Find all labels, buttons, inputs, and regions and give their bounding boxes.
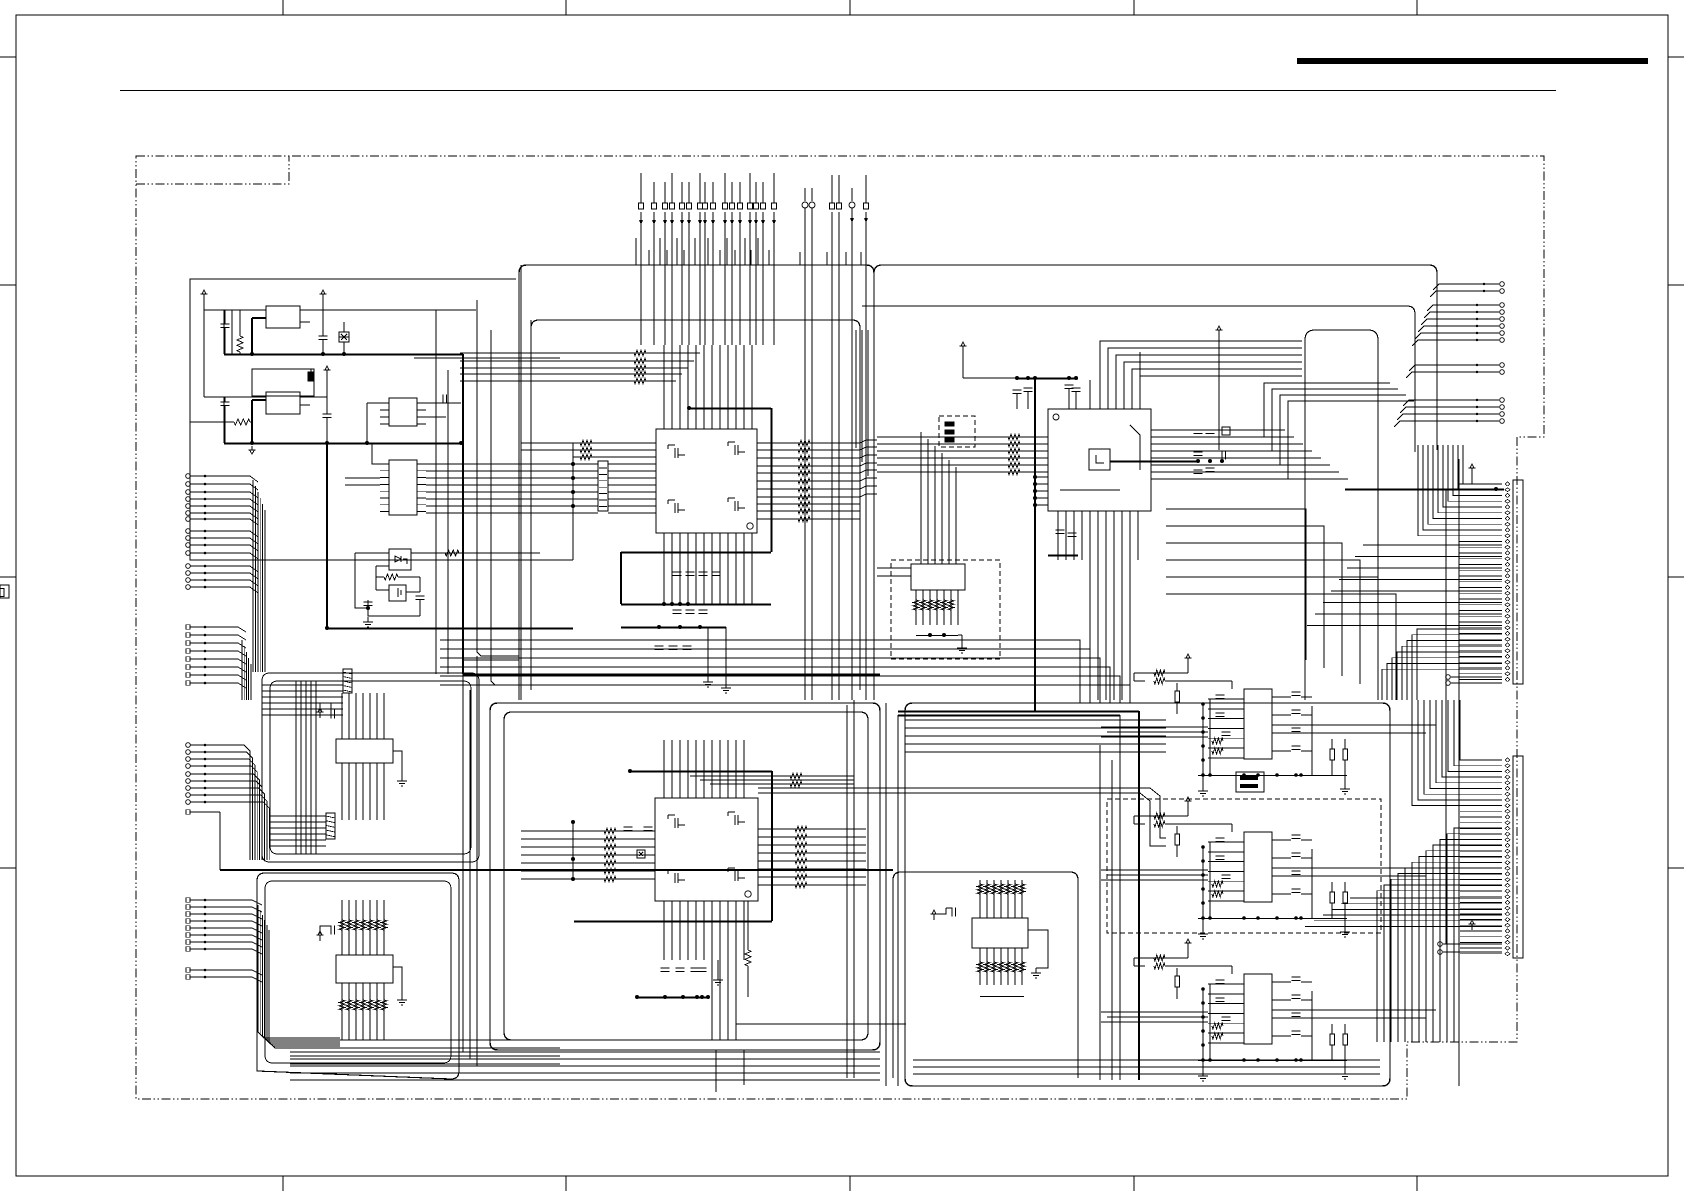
U9 ground right — [1344, 1069, 1346, 1074]
bus outline RRF — [262, 673, 479, 862]
U6 top pin columns — [979, 880, 981, 918]
CONN2 long feeds — [1350, 897, 1502, 899]
connector CONN2 body — [1513, 756, 1523, 958]
CONN1 row stubs — [1465, 483, 1502, 485]
U8 box resistor left — [1175, 834, 1180, 845]
VCC arrow at REG1 output — [322, 294, 324, 300]
RN1 to U1 rows — [608, 463, 656, 465]
opto U13 — [389, 549, 411, 570]
frame zone ticks bottom — [282, 1176, 284, 1191]
ground GND7 — [1035, 968, 1037, 973]
resistor network RN1 — [598, 461, 608, 511]
top rail extension to right — [323, 309, 476, 311]
diode D1 small — [308, 372, 314, 381]
U8 long input rows — [1101, 869, 1208, 871]
U2 small component — [637, 850, 645, 858]
long crossing at y1024 — [736, 1023, 906, 1025]
vertical bus x521-x531 — [520, 265, 522, 700]
top header connector pads J1 — [640, 173, 642, 203]
rows crossing to RRE/U8 — [758, 788, 1166, 838]
U8 vcc arrow — [1187, 801, 1189, 807]
bus outline RRC inner — [862, 306, 1415, 452]
U9 ground — [1202, 1071, 1204, 1076]
U1 inner transistor glyphs — [674, 448, 676, 458]
U11 cap C11 — [330, 926, 332, 935]
IC U7 — [1244, 689, 1272, 759]
U7 long input rows — [1101, 726, 1208, 728]
U3 bottom columns — [1057, 511, 1059, 560]
U8 left bus verticals — [1202, 847, 1204, 919]
U12B pin stubs — [380, 463, 389, 465]
U8 input rows — [1208, 841, 1244, 843]
IC U8 — [1244, 832, 1272, 902]
U2 left rows — [521, 830, 655, 832]
small pin circles near CONN1 bottom — [1446, 675, 1451, 680]
U3 left dots — [1033, 475, 1037, 479]
capacitor C1 — [221, 323, 230, 325]
U8 right vertical — [1311, 849, 1313, 918]
U9 bottom rail — [1198, 1060, 1347, 1062]
U3 bottom caps — [1056, 529, 1065, 531]
U7 left zigzags — [1212, 738, 1223, 744]
U3 bottom heavy — [1048, 555, 1078, 557]
U9 box resistors right — [1330, 1034, 1335, 1045]
bus outline RRH around U6 — [893, 872, 1078, 1078]
U7 ground — [1202, 786, 1204, 791]
U8 top rows with resistors — [1134, 815, 1188, 817]
REG1 wires — [204, 309, 266, 311]
U6 bottom rail — [980, 996, 1024, 998]
U3 left rows — [877, 436, 1048, 438]
U2 verticals to RRD bottom — [711, 901, 713, 1040]
resistor R2 — [234, 419, 250, 425]
long horizontals left-center — [414, 357, 560, 359]
capacitor C5 — [442, 395, 444, 404]
U5 bottom rail — [916, 635, 958, 637]
U1 right rows — [757, 442, 860, 444]
mid horizontals crossing — [256, 559, 573, 561]
left connector pins CN3 squares — [186, 625, 190, 629]
U7 ground right — [1344, 784, 1346, 789]
RRG bottom bundle — [290, 1039, 560, 1041]
REG2 wires — [204, 396, 266, 398]
capacitor C7 — [416, 595, 425, 597]
U3 top caps — [1013, 389, 1022, 391]
IC U6 — [972, 918, 1028, 948]
U2 bottom pin columns — [663, 901, 665, 960]
CONN2 feed corner bundle lower — [1454, 828, 1502, 1042]
U2 bottom resistor — [745, 950, 751, 966]
jumper block JP2 (hatched) — [343, 669, 352, 693]
U11 bottom pin columns — [341, 983, 343, 1040]
U6 right wire — [1028, 930, 1048, 968]
header group2 wires down — [804, 265, 806, 700]
power block inner verticals — [223, 310, 225, 354]
RRE bottom inner rows — [913, 1059, 1380, 1061]
U7 vcc arrow — [1187, 658, 1189, 664]
dashed box around U8 — [1107, 799, 1381, 933]
RRA right edge extension verticals — [853, 700, 855, 1078]
board outline label box — [136, 156, 289, 184]
U11 resistor row below — [339, 1000, 345, 1010]
right pins feed bundle — [1433, 284, 1439, 290]
CONN1 vcc — [1471, 468, 1473, 474]
U9 right exit wires — [1272, 1009, 1436, 1011]
CONN1 lower feeds — [1417, 629, 1502, 700]
U7 right wires — [1272, 696, 1291, 698]
U2 caps cluster left-bottom — [644, 826, 653, 828]
U11 right down wire — [393, 967, 402, 995]
U8 left zigzags — [1212, 881, 1223, 887]
right edge pin circles group RP2 — [1500, 303, 1505, 308]
RRE inner verticals — [1099, 745, 1101, 1080]
header wires through bus to U1 — [640, 265, 642, 345]
U8 left caps — [1216, 837, 1225, 839]
U1 heavy corner bus — [689, 408, 771, 410]
RRA-edge verticals to rows — [855, 330, 857, 448]
U6 left cap — [951, 908, 953, 917]
bus outline RRC right upper — [874, 265, 1437, 450]
VCC U11 — [319, 935, 321, 941]
ground GND9 — [401, 995, 403, 1000]
capacitor C3 — [221, 401, 230, 403]
waist horizontal bundle — [440, 640, 1080, 703]
ground GND2 — [367, 617, 369, 622]
U7 left bus verticals — [1202, 704, 1204, 776]
IC U9 — [1244, 974, 1272, 1044]
small pin circles near CONN2 — [1438, 942, 1443, 947]
U3 inner route lines — [1130, 425, 1140, 470]
U12A wires — [367, 402, 380, 404]
horizontal bundle into RRE — [905, 719, 1166, 721]
U12B left wires — [372, 443, 380, 464]
ground GND3 — [707, 677, 709, 682]
U1 bottom stub caps — [655, 645, 664, 647]
dashed jumper box JP1 — [939, 416, 975, 447]
CN5 bundle vertical — [258, 905, 340, 1038]
U7 right vertical — [1311, 706, 1313, 775]
U11 resistor row above — [339, 920, 345, 930]
U3 right heavy stub — [1110, 461, 1198, 463]
QFP U3 body — [1048, 409, 1151, 511]
U10 cap C10 — [330, 710, 332, 719]
U2 rows above — [690, 775, 854, 777]
U2 inner transistor glyphs — [674, 818, 676, 828]
U9 left bus verticals — [1202, 989, 1204, 1061]
IC U5 — [911, 564, 965, 590]
RRF inner vertical bundle — [295, 681, 297, 854]
U2 bottom caps — [661, 967, 670, 969]
VCC arrow at REG1 input — [203, 294, 205, 300]
U8 box resistors right — [1330, 892, 1335, 903]
left connector pins CN4 circles — [186, 743, 191, 748]
left verticals down to bottom bundle — [462, 674, 464, 1052]
CONN2 vcc — [1471, 924, 1473, 930]
bus outline RRA inner — [531, 320, 860, 690]
U1 rows jog to U3 rows — [860, 440, 877, 443]
bus outline RRE lower right — [905, 703, 1390, 1086]
left connector pins CN5 squares — [186, 898, 190, 902]
bus outline RRD lower center — [490, 703, 880, 1050]
connector CONN1 body — [1513, 480, 1523, 684]
U2 top pin columns — [663, 740, 665, 798]
U3 right rows — [1151, 429, 1285, 431]
ground GND1 — [251, 446, 253, 450]
U3 top heavy rail — [1017, 378, 1078, 380]
U9 right vertical — [1311, 991, 1313, 1060]
power block outline — [190, 279, 516, 422]
U3 right caps 2 — [1194, 469, 1203, 471]
resistor R3 — [445, 550, 459, 556]
long horizontal from power to RRA — [463, 674, 880, 676]
U1 bottom rail — [621, 604, 771, 606]
U2 right rows upper with resistors — [790, 773, 802, 779]
verticals below U3 into RRE — [1089, 560, 1091, 700]
IC U10 — [336, 739, 393, 763]
U7 right exit wires — [1272, 724, 1436, 726]
U6 bottom pin columns — [979, 948, 981, 985]
top rule line — [120, 90, 1556, 92]
header pad stubs — [635, 238, 637, 265]
U8 ground — [1202, 929, 1204, 934]
VCC feed at stack top — [1218, 330, 1220, 336]
bus outline RRG inner — [265, 881, 451, 1063]
U9 long input rows — [1101, 1011, 1208, 1013]
CONN2 pins — [1505, 758, 1510, 762]
U3 heavy left bus — [1034, 378, 1036, 711]
U5 top feed verticals — [920, 432, 922, 564]
heavy vertical x621 — [620, 552, 622, 604]
U12B right bus rows to resistor network — [426, 463, 598, 465]
U8 right caps column — [1292, 834, 1301, 836]
U9 right caps column — [1292, 976, 1301, 978]
frame zone ticks left — [0, 56, 16, 58]
bus outline RRF inner — [270, 681, 471, 854]
U8 right wires — [1272, 839, 1291, 841]
heavy horizontal to right — [327, 628, 573, 630]
U2 bottom rail — [637, 997, 708, 999]
dashed box around U5 — [891, 560, 1000, 659]
U9 right wires — [1272, 981, 1291, 983]
U9 left zigzags — [1212, 1023, 1223, 1029]
U9 input rows — [1208, 983, 1244, 985]
resistor R4 — [384, 574, 398, 580]
U10 right down wire — [393, 751, 402, 776]
rounded-top bus pair — [1305, 330, 1378, 700]
U7 input rows — [1208, 698, 1244, 700]
CONN1 feed corner bundle — [1463, 445, 1502, 484]
left single square pin — [186, 810, 190, 814]
CONN2 feed corner bundle upper — [1460, 700, 1502, 760]
U5 pin columns below — [915, 590, 917, 625]
regulator REG1 — [266, 306, 300, 328]
title bar (thick) — [1297, 58, 1648, 64]
ground GND6 — [961, 643, 963, 648]
power rail heavy top — [224, 354, 463, 356]
U2 left bus vertical — [572, 822, 574, 879]
U6 resistor row below — [977, 962, 983, 972]
U7 right caps column — [1292, 691, 1301, 693]
regulator REG2 — [266, 392, 300, 414]
QFP U2 body — [655, 798, 758, 901]
U9 vcc arrow — [1187, 943, 1189, 949]
verticals below RRD to border — [715, 1050, 717, 1092]
right spine long vertical — [1445, 489, 1447, 944]
IC U12B 16-pin — [389, 460, 417, 515]
left long verticals from power block — [435, 310, 437, 674]
U11 top pin columns — [341, 900, 343, 955]
resistor R1 vertical — [237, 336, 243, 352]
U6 resistor row above — [977, 884, 983, 894]
U7 box resistor left — [1175, 691, 1180, 702]
left pins bundle vertical CN2 — [252, 480, 254, 672]
U10 top pin columns — [341, 693, 343, 739]
header square pads group2 — [831, 175, 833, 203]
U2 right rows — [758, 828, 866, 830]
U5 resistor row — [913, 600, 919, 610]
left margin zone mark — [0, 585, 9, 598]
frame zone ticks right — [1668, 56, 1684, 58]
U1 bottom caps cluster 2 — [673, 609, 682, 611]
U8 bottom rail — [1198, 918, 1347, 920]
U7 left caps — [1216, 694, 1225, 696]
CONN1 pins — [1505, 482, 1510, 486]
corridor right bus verticals — [1458, 459, 1460, 1086]
VCC U10 — [319, 712, 321, 718]
U7 box resistors right — [1330, 749, 1335, 760]
CN3 bundle vertical — [241, 640, 243, 700]
U8 right exit wires — [1272, 867, 1436, 869]
U13 wires — [355, 552, 389, 554]
U1 decoupling caps below — [673, 571, 682, 573]
JP1 jumper bars — [945, 422, 954, 426]
right edge pin circles group RP3 — [1500, 363, 1505, 368]
U7 extra caps below — [1236, 772, 1264, 792]
left bus vertical x573 — [572, 443, 574, 560]
capacitor C6 — [364, 601, 373, 603]
ground GND8 — [401, 776, 403, 781]
header stub wires 2 — [799, 252, 801, 265]
U3 inner pad square — [1089, 449, 1110, 470]
heavy bus vertical from power rail — [462, 354, 464, 674]
U1 left feed lines from x521 — [521, 442, 573, 444]
power rail heavy bottom — [224, 443, 463, 445]
jumper block JP3 (hatched) — [326, 813, 335, 839]
heavy vertical mid-left — [326, 443, 328, 628]
U3 right U-turn bundle — [1151, 383, 1390, 437]
capacitor C2 — [319, 335, 328, 337]
U3 top pin columns short — [1089, 380, 1091, 409]
CONN2 row stubs — [1466, 759, 1502, 761]
CONN1 long feeds from left — [1363, 544, 1502, 546]
header circle pads — [804, 188, 806, 201]
VCC U6 — [933, 914, 935, 920]
ground GND4 — [725, 683, 727, 688]
right edge pin circles group RP1 — [1500, 282, 1505, 287]
U12A pin stubs — [380, 402, 389, 404]
U5 wires left — [877, 567, 911, 569]
thermistor RT1 — [339, 332, 349, 342]
U1 top pin columns — [663, 345, 665, 429]
staircase bundle to stack bus (U3 top pins) — [1100, 341, 1302, 409]
U10 bottom pin columns — [341, 763, 343, 820]
corridor heavy right horizontal — [1345, 489, 1504, 491]
bus outline RRD inner — [504, 712, 868, 1040]
heavy waist pair — [898, 711, 1139, 713]
verticals between RRD and RRE — [885, 703, 887, 1086]
U8 ground right — [1344, 927, 1346, 932]
bottom bundle across — [290, 1051, 880, 1053]
waist bundle corners left — [477, 300, 519, 656]
U1 left rows upper — [573, 442, 656, 444]
frame zone ticks top — [282, 0, 284, 15]
QFP U1 body — [656, 429, 757, 533]
IC U12A — [389, 398, 417, 426]
U13/U14 loop wires — [355, 560, 368, 608]
regulator REG2 outline box — [252, 369, 314, 396]
right edge pin circles group RP4 — [1500, 398, 1505, 403]
U9 left caps — [1216, 979, 1225, 981]
ground GND5 — [717, 975, 719, 980]
U3 right caps cluster — [1194, 429, 1203, 431]
capacitor C4 — [323, 413, 332, 415]
U7 top rows with resistors — [1134, 672, 1188, 674]
IC U11 — [336, 955, 393, 983]
bus outline RRG — [257, 873, 459, 1079]
RRF left bundle rows — [262, 684, 343, 686]
IC U14 crystal osc — [389, 585, 406, 601]
U7 bottom rail — [1198, 775, 1347, 777]
board outline (dash-dot) — [136, 156, 1544, 1099]
U9 box resistor left — [1175, 976, 1180, 987]
VCC arrow above U3 — [962, 346, 964, 352]
U1 rows above (bundle with resistors) — [560, 352, 700, 354]
U9 top rows with resistors — [1134, 957, 1188, 959]
center-right nested corners — [1166, 509, 1306, 660]
U1 bottom pin columns — [663, 533, 665, 604]
VCC cross at C4 — [326, 370, 328, 376]
bus outline RRA upper center — [519, 265, 874, 700]
U2 heavy corner bus — [630, 771, 772, 773]
U14 wires — [376, 589, 389, 591]
U1 bottom rail 2 — [621, 627, 726, 629]
left connector pins CN2 circles group — [186, 474, 191, 479]
